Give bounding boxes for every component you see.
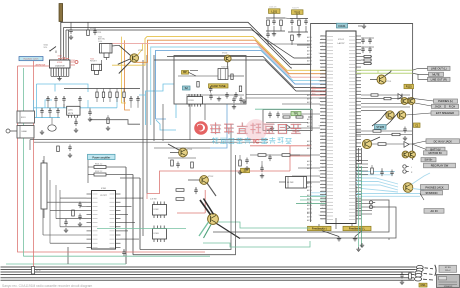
IC1 bottom pins bbox=[50, 68, 52, 76]
wire feedback diagonals bbox=[322, 231, 339, 237]
component box mid bbox=[286, 177, 307, 189]
svg-text:IC302: IC302 bbox=[154, 209, 159, 211]
wire yellow bus bbox=[112, 37, 326, 71]
capacitor tape2 x58 bbox=[56, 110, 59, 112]
svg-text:BP: BP bbox=[183, 70, 187, 74]
label VT105 tag bbox=[375, 125, 387, 130]
VT108 headphone driver bbox=[403, 183, 413, 193]
ground feedback1 bbox=[338, 237, 340, 239]
tape bottom components bbox=[74, 121, 77, 123]
wire tuner drop 1 bbox=[189, 104, 191, 140]
svg-text:PHONES JACK: PHONES JACK bbox=[425, 185, 444, 189]
right verticals bbox=[358, 148, 360, 162]
Q1 RF transistor bbox=[130, 54, 138, 62]
speaker plug C bbox=[414, 277, 421, 281]
wire cyan rail A bbox=[34, 107, 118, 109]
svg-text:VT105: VT105 bbox=[376, 125, 384, 129]
diode D101 bbox=[398, 94, 402, 100]
VT101 transistor bbox=[377, 75, 386, 84]
label right tag phones bbox=[434, 99, 458, 103]
wire IC3 bottom feedback bbox=[325, 222, 327, 225]
wire riser x68 bbox=[67, 247, 69, 264]
svg-text:SW B+: SW B+ bbox=[424, 158, 433, 162]
label L101 tag bbox=[269, 9, 281, 14]
svg-text:IN 2: IN 2 bbox=[321, 74, 324, 76]
small IC footprint SW2 bbox=[153, 229, 167, 240]
wire bottom bus pair A bbox=[1, 266, 416, 268]
svg-text:IC301: IC301 bbox=[101, 188, 107, 190]
wire top bus black 3 bbox=[66, 30, 311, 58]
VT5 driver transistor bbox=[208, 214, 219, 225]
resistor R30 bbox=[94, 166, 106, 169]
wire cyan rail B bbox=[34, 117, 61, 119]
wire top bus black 1 bbox=[61, 22, 311, 64]
light blue fan bbox=[412, 173, 430, 184]
resistor R31 bbox=[94, 173, 106, 176]
volume switch symbol bbox=[51, 47, 57, 51]
svg-text:D-S SW: D-S SW bbox=[150, 199, 157, 201]
wire yellow left drop bbox=[122, 37, 127, 103]
wire outer loop left verticals bbox=[125, 167, 127, 264]
wire tape mid bus bbox=[64, 88, 140, 90]
wire box bottom edge 2 bbox=[133, 240, 236, 255]
wire cyan top rail bbox=[36, 84, 88, 92]
label tag green bbox=[291, 112, 301, 116]
svg-text:R CH: R CH bbox=[449, 104, 455, 108]
svg-text:Feedback(+): Feedback(+) bbox=[312, 227, 327, 231]
svg-text:Earphone switch: Earphone switch bbox=[24, 58, 39, 61]
svg-text:AM IN: AM IN bbox=[307, 53, 312, 56]
ground feedback2 bbox=[354, 237, 356, 239]
mid right network wires2 bbox=[372, 143, 413, 145]
speaker box bbox=[437, 275, 460, 288]
box mid2 resistors bbox=[263, 110, 312, 131]
B1 AM osc coil bbox=[100, 44, 113, 54]
wire tuner to IC3 row1 bbox=[246, 94, 326, 96]
wire tuner to IC3 row2 bbox=[246, 97, 326, 99]
svg-text:AC IN: AC IN bbox=[431, 209, 438, 213]
svg-text:L101: L101 bbox=[271, 9, 277, 13]
svg-text:X201: X201 bbox=[58, 56, 62, 58]
svg-text:AM IN: AM IN bbox=[307, 212, 312, 215]
bottom cap cluster bbox=[400, 274, 403, 276]
label tuner IC202 yellow bbox=[209, 84, 229, 88]
wire y245 stub bbox=[388, 238, 390, 240]
wire loop horizontal stubs bbox=[106, 166, 126, 168]
svg-text:REF: REF bbox=[321, 167, 324, 169]
wire green bottom bus bbox=[23, 255, 210, 257]
svg-text:IN 2: IN 2 bbox=[321, 46, 324, 48]
wire orange left drop bbox=[125, 40, 130, 110]
wire teal staircase bbox=[97, 228, 186, 230]
VT4 transistor bbox=[200, 176, 209, 185]
wire IC3 left lightblue rows bbox=[311, 192, 326, 194]
speaker plug B2 bbox=[415, 274, 422, 278]
wire cyan branches bbox=[45, 100, 52, 108]
VT106 VT107 transistors top pair bbox=[401, 98, 408, 105]
antenna rod bbox=[59, 4, 63, 22]
wire pink bus bbox=[104, 44, 326, 78]
svg-text:MOTOR 6V: MOTOR 6V bbox=[429, 151, 443, 155]
gray L wire bbox=[90, 120, 140, 125]
LC cluster 2 bbox=[296, 14, 298, 18]
ground tuner2 bbox=[243, 99, 245, 101]
IC4 left pins bbox=[87, 193, 92, 195]
VT3 transistor bbox=[179, 148, 188, 157]
svg-text:AM IN: AM IN bbox=[307, 182, 312, 185]
wire right pin rows y160-175 bbox=[356, 160, 368, 162]
wire red to IC3 bbox=[290, 155, 310, 157]
tuner section box bbox=[174, 56, 246, 105]
svg-text:AM IN: AM IN bbox=[307, 39, 312, 42]
wires to out tags 2 bbox=[361, 103, 410, 105]
svg-text:AM IN: AM IN bbox=[307, 147, 312, 150]
svg-text:AM IN: AM IN bbox=[307, 56, 312, 59]
speaker plug A2 bbox=[416, 268, 423, 272]
IC4 wires left bbox=[60, 197, 87, 199]
capacitor bundle corner bbox=[232, 98, 235, 100]
resistor tape x103.5 bbox=[102, 92, 104, 98]
svg-text:DET: DET bbox=[321, 101, 324, 103]
tuner caps bottom bbox=[209, 95, 212, 97]
wire bottom bus pair B bbox=[1, 271, 415, 273]
label right tag group3 bbox=[426, 139, 460, 144]
wire cyan right vertical bbox=[146, 84, 175, 125]
label tag delta bbox=[241, 168, 250, 172]
svg-text:AM IN: AM IN bbox=[307, 219, 312, 222]
svg-text:Sanyo rec. CXA1191M radio cass: Sanyo rec. CXA1191M radio cassette recor… bbox=[2, 284, 93, 288]
svg-text:AM IN: AM IN bbox=[307, 204, 312, 207]
svg-text:C106 470: C106 470 bbox=[269, 7, 276, 9]
resistor tape x124 bbox=[123, 92, 125, 98]
jack symbols y166 bbox=[403, 165, 406, 168]
svg-text:AM IN: AM IN bbox=[307, 36, 312, 39]
svg-text:C205: C205 bbox=[71, 60, 75, 62]
wire teal box top bbox=[255, 108, 312, 110]
svg-text:Feedback(-) L: Feedback(-) L bbox=[349, 227, 366, 231]
mid wires horizontal y148-150 bbox=[154, 147, 210, 149]
svg-text:L: L bbox=[411, 167, 412, 169]
label C tag yellow2 bbox=[414, 123, 421, 127]
small tag CN bbox=[419, 283, 427, 287]
svg-text:PHONES (L): PHONES (L) bbox=[438, 99, 453, 103]
right resistor rows y55-65 bbox=[361, 56, 372, 58]
svg-text:R302 2.2: R302 2.2 bbox=[95, 171, 102, 173]
Q1 fan wires bbox=[119, 45, 131, 55]
svg-text:AM IN: AM IN bbox=[307, 46, 312, 49]
ground antenna cap bbox=[70, 35, 72, 37]
svg-text:REF: REF bbox=[321, 77, 324, 79]
dashes to speaker tag bbox=[425, 267, 429, 269]
svg-text:VT302: VT302 bbox=[208, 176, 213, 178]
svg-text:VCO IN: VCO IN bbox=[319, 53, 326, 55]
mid2 inner components bbox=[268, 113, 271, 115]
wire orange bus bbox=[134, 40, 326, 73]
watermark globe bbox=[245, 119, 267, 141]
electronic switch IC2 bbox=[67, 106, 80, 115]
svg-text:VT101: VT101 bbox=[386, 81, 391, 83]
svg-text:IC201: IC201 bbox=[57, 62, 63, 64]
wire mid verticals to feedback bbox=[230, 131, 232, 241]
svg-text:R301 2.2: R301 2.2 bbox=[95, 164, 102, 166]
C201 bbox=[93, 30, 96, 32]
svg-text:MUTE: MUTE bbox=[432, 72, 440, 76]
small IC footprint SW1 bbox=[153, 205, 167, 216]
mid right network wires bbox=[356, 130, 412, 132]
svg-text:C1: C1 bbox=[415, 123, 419, 127]
IC3 teal pin group bbox=[300, 196, 326, 198]
ground tuner bbox=[218, 97, 220, 99]
label R tag yellow bbox=[404, 84, 414, 88]
svg-text:DET: DET bbox=[321, 56, 324, 58]
resistor bottom cluster bbox=[409, 273, 412, 279]
wire pale green out bbox=[356, 69, 413, 71]
R201 bias network bbox=[87, 30, 90, 36]
svg-text:REF: REF bbox=[321, 122, 324, 124]
svg-text:CXA1191M: CXA1191M bbox=[55, 65, 65, 68]
wire black bus low 2 bbox=[154, 60, 326, 91]
capacitor tape x80 bbox=[78, 98, 81, 100]
resistor mid cluster2 bbox=[239, 160, 242, 166]
resistor bottom left bbox=[32, 267, 35, 275]
svg-text:IC303: IC303 bbox=[154, 233, 159, 235]
label tag y209 bbox=[424, 209, 444, 214]
label tuner S2 teal bbox=[183, 86, 191, 90]
wire mid vertical x154 bbox=[153, 55, 155, 141]
wire LC to box bbox=[285, 17, 290, 20]
wire yellow stub Q1 bbox=[138, 43, 143, 55]
svg-text:GND 1: GND 1 bbox=[319, 43, 324, 45]
svg-text:IC202 TUNE: IC202 TUNE bbox=[211, 84, 226, 88]
IC4 power amp body bbox=[92, 191, 116, 250]
svg-text:MUTE: MUTE bbox=[68, 113, 74, 115]
label speaker tag bbox=[439, 265, 457, 272]
svg-text:IC203: IC203 bbox=[189, 100, 194, 102]
main section box bbox=[311, 24, 413, 223]
capacitor bootstrap bbox=[122, 251, 125, 253]
wire black bus low 1 bbox=[167, 57, 326, 88]
svg-text:DC IN 6V JACK: DC IN 6V JACK bbox=[434, 139, 453, 143]
svg-text:Power amplifier: Power amplifier bbox=[92, 155, 110, 159]
svg-text:CN1: CN1 bbox=[420, 283, 426, 287]
svg-text:GND 1: GND 1 bbox=[319, 105, 324, 107]
svg-text:AM IN: AM IN bbox=[307, 207, 312, 210]
svg-text:AM IN: AM IN bbox=[307, 43, 312, 46]
svg-text:AM IN: AM IN bbox=[307, 215, 312, 218]
svg-text:2W x2: 2W x2 bbox=[445, 270, 450, 272]
capacitor tape x131 bbox=[129, 98, 132, 100]
wire antenna drop lines bbox=[63, 28, 65, 61]
tape lower components bbox=[88, 111, 91, 113]
tuner varicap bbox=[209, 88, 212, 90]
component box B201 left bbox=[17, 111, 35, 123]
mid resistor cluster right bbox=[250, 154, 300, 156]
svg-text:S2: S2 bbox=[185, 86, 189, 90]
svg-text:DET: DET bbox=[321, 219, 324, 221]
svg-text:DET: DET bbox=[321, 174, 324, 176]
wire transistor pair links bbox=[408, 98, 434, 101]
IC4 vertical feeds bbox=[42, 160, 44, 235]
VT2 tuner transistor bbox=[224, 55, 231, 62]
capacitor tape2 x50 bbox=[48, 110, 51, 112]
IC4 wires right bbox=[121, 197, 144, 199]
LC cluster 1 bbox=[273, 13, 275, 18]
wire lightblue out bbox=[420, 194, 424, 201]
headphone caps bbox=[380, 171, 383, 173]
svg-text:AM IN: AM IN bbox=[307, 63, 312, 66]
ground mic bbox=[41, 130, 43, 132]
tuner transformer bbox=[218, 69, 228, 80]
svg-text:TP1: TP1 bbox=[294, 112, 299, 116]
IC3 main jungle IC body bbox=[326, 31, 356, 224]
tape head jack bbox=[6, 129, 10, 133]
svg-text:AM IN: AM IN bbox=[307, 163, 312, 166]
svg-text:AM IN: AM IN bbox=[307, 140, 312, 143]
IC3 inside pin names bbox=[327, 36, 333, 38]
B2 FM det coil bbox=[92, 64, 102, 70]
svg-text:REC/PLAY SW: REC/PLAY SW bbox=[431, 164, 449, 168]
IC3 red pin group bbox=[311, 87, 326, 89]
wire teal right risers bbox=[358, 164, 360, 247]
svg-text:LINE OUT (L): LINE OUT (L) bbox=[431, 66, 447, 70]
svg-text:HEAD: HEAD bbox=[22, 130, 28, 133]
svg-text:R9 1k: R9 1k bbox=[36, 270, 41, 272]
IC1 AM/FM radio IC bbox=[50, 60, 71, 68]
svg-text:VOL: VOL bbox=[44, 47, 48, 49]
svg-text:EXT SPEAKER: EXT SPEAKER bbox=[436, 111, 454, 115]
dashes to speaker box bbox=[423, 278, 427, 280]
label feedback minus bbox=[343, 226, 371, 230]
tuner wires bbox=[178, 75, 218, 77]
watermark logo circle bbox=[194, 121, 208, 135]
label feedback plus bbox=[308, 226, 332, 230]
wire red left vertical B bbox=[18, 66, 206, 252]
speaker plug B1 bbox=[415, 271, 422, 275]
wire IC3 left extensions bbox=[282, 103, 320, 105]
label tag y151 bbox=[424, 151, 448, 155]
wire bottom bus pair C bbox=[1, 277, 415, 279]
wire loop right of IC3 bbox=[213, 200, 389, 232]
svg-text:T102 IFT: T102 IFT bbox=[292, 8, 299, 10]
small IC footprint tuner bbox=[187, 97, 203, 105]
svg-text:VT201: VT201 bbox=[138, 50, 143, 52]
wire box bottom edge 1 bbox=[140, 240, 231, 250]
svg-text:FILTER: FILTER bbox=[287, 182, 294, 184]
VT102 VT103 transistors bbox=[386, 111, 394, 119]
svg-text:AM IN: AM IN bbox=[307, 160, 312, 163]
IC3 right pins bbox=[356, 35, 361, 37]
capacitor tape x64 bbox=[62, 98, 65, 100]
svg-text:SP 8Ω: SP 8Ω bbox=[445, 267, 451, 269]
amp row components bbox=[57, 146, 60, 152]
wire teal left vertical bbox=[22, 68, 24, 256]
svg-text:R115: R115 bbox=[406, 85, 413, 89]
VT5 fan wires bbox=[200, 200, 211, 215]
wire antenna caps bbox=[69, 29, 72, 31]
svg-text:REF: REF bbox=[321, 150, 324, 152]
svg-text:CD7377: CD7377 bbox=[100, 195, 107, 197]
IC4 right pins bbox=[116, 193, 121, 195]
svg-text:T204 OSC: T204 OSC bbox=[221, 66, 230, 68]
VT5 teal wedges bbox=[199, 222, 209, 236]
wire tags join bbox=[413, 68, 428, 70]
label earphone switch bbox=[19, 57, 43, 61]
ground top bbox=[363, 24, 365, 26]
label power amplifier bbox=[88, 154, 116, 159]
watermark subtitle bbox=[212, 138, 218, 144]
label T102 tag bbox=[292, 10, 304, 15]
svg-text:VCO IN: VCO IN bbox=[319, 170, 326, 172]
resistor tape x97 bbox=[96, 92, 98, 98]
brace speaker bbox=[435, 265, 436, 276]
capacitor tape2 x42 bbox=[40, 110, 43, 112]
ground IC1 bbox=[59, 76, 61, 78]
resistor tape x117 bbox=[116, 92, 118, 98]
ground teal risers bbox=[358, 247, 360, 249]
svg-text:IC101: IC101 bbox=[338, 39, 345, 41]
svg-text:IN 2: IN 2 bbox=[321, 208, 324, 210]
svg-text:AM IN: AM IN bbox=[307, 59, 312, 62]
tuner resistors bbox=[197, 82, 199, 88]
wire cyan drop tuner bbox=[175, 104, 177, 118]
right top pair transistors y152 bbox=[402, 151, 409, 158]
ground bottom cluster bbox=[401, 280, 403, 282]
right caps group1 bbox=[361, 39, 364, 41]
svg-text:IN 2: IN 2 bbox=[321, 119, 324, 121]
svg-text:DET: DET bbox=[321, 146, 324, 148]
svg-text:R201: R201 bbox=[90, 28, 94, 30]
svg-text:VCO IN: VCO IN bbox=[319, 215, 326, 217]
label IC101 tag bbox=[337, 23, 348, 28]
wire cyan bus bbox=[151, 47, 326, 125]
svg-text:AM IN: AM IN bbox=[307, 189, 312, 192]
svg-text:C201: C201 bbox=[97, 32, 101, 34]
VT5 collector diagonal bbox=[217, 224, 241, 239]
jacks y202 bbox=[369, 201, 372, 204]
capacitor tape x138 bbox=[136, 98, 139, 100]
wire red IC feed bbox=[18, 65, 50, 67]
svg-text:COIL: COIL bbox=[98, 41, 102, 43]
wire blue drop tuner bbox=[210, 104, 227, 148]
label line out tags bbox=[428, 66, 451, 70]
svg-text:AM IN: AM IN bbox=[307, 185, 312, 188]
record play head box bbox=[17, 126, 34, 139]
IC3 left pins bbox=[320, 35, 326, 37]
svg-text:T102: T102 bbox=[294, 10, 300, 14]
tape ground row bbox=[63, 104, 65, 108]
svg-text:VCO IN: VCO IN bbox=[319, 81, 326, 83]
wire tuner drop 2 bbox=[204, 104, 206, 120]
svg-text:IN 2: IN 2 bbox=[321, 163, 324, 165]
label right tag group2 bbox=[431, 111, 459, 115]
svg-text:LA1787: LA1787 bbox=[338, 42, 346, 45]
right row components y93-100 bbox=[361, 94, 410, 96]
svg-text:JACK: JACK bbox=[435, 104, 442, 108]
svg-text:VT202: VT202 bbox=[222, 53, 227, 55]
volume pot tall bbox=[41, 163, 47, 209]
capacitor tape x56 bbox=[54, 98, 57, 100]
wire red loop mid bbox=[147, 171, 290, 194]
wire cyan vertical from IC1 bbox=[35, 84, 37, 118]
wire teal bottom left bbox=[6, 263, 126, 265]
watermark main text bbox=[211, 123, 221, 134]
svg-text:IC101: IC101 bbox=[339, 24, 346, 28]
mic capacitor bbox=[48, 125, 56, 131]
svg-text:FM DET: FM DET bbox=[90, 61, 98, 63]
svg-text:AM IN: AM IN bbox=[307, 167, 312, 170]
IC4 left components bbox=[78, 203, 81, 205]
svg-text:AM IN: AM IN bbox=[307, 101, 312, 104]
